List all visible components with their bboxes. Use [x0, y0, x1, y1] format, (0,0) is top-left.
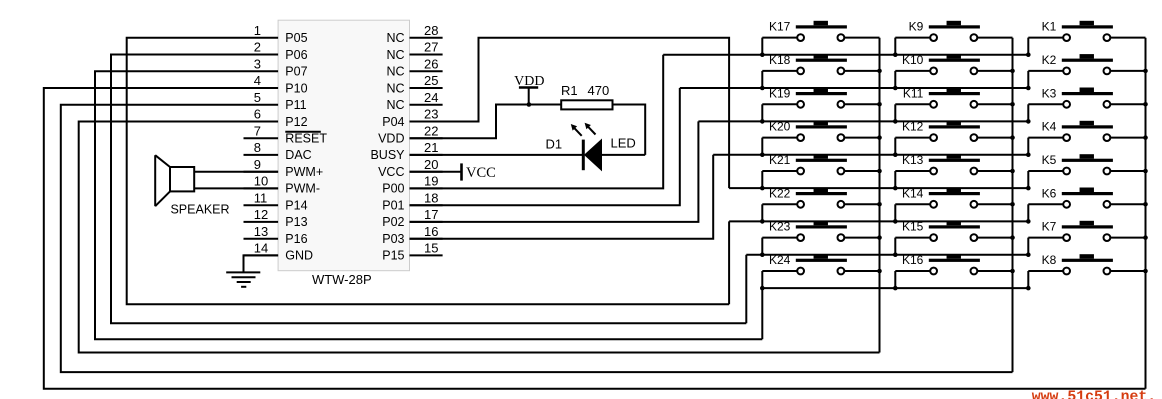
- junction bus 7 / column 3 key drop: [1026, 252, 1031, 257]
- junction key column 2 row 5 lead: [1010, 169, 1015, 174]
- svg-text:K4: K4: [1042, 120, 1057, 134]
- svg-text:NC: NC: [386, 81, 404, 95]
- pin 5 P11: [244, 90, 307, 112]
- junction bus 6 / column 2 key drop: [893, 219, 898, 224]
- svg-text:K20: K20: [769, 120, 791, 134]
- svg-text:P15: P15: [382, 249, 404, 263]
- pin 25 NC: [386, 73, 442, 95]
- pin 10 PWM-: [244, 174, 321, 196]
- svg-text:DAC: DAC: [285, 148, 311, 162]
- svg-text:VCC: VCC: [466, 165, 496, 181]
- svg-text:K18: K18: [769, 53, 791, 67]
- svg-text:K8: K8: [1042, 253, 1057, 267]
- svg-text:3: 3: [254, 56, 261, 71]
- junction bus 2 / column 2 key drop: [893, 86, 898, 91]
- wire P00 pin 19 riser to row bus 1: [410, 55, 664, 189]
- ground: [226, 272, 260, 286]
- junction VDD rail: [527, 102, 532, 107]
- junction key column 2 row 8 lead: [1010, 269, 1015, 274]
- svg-text:4: 4: [254, 73, 261, 88]
- svg-text:K22: K22: [769, 186, 791, 200]
- switch K15 pushbutton: [895, 220, 1012, 255]
- pin 27 NC: [386, 40, 442, 62]
- wire speaker to PWM+ pin 9: [194, 171, 278, 173]
- junction bus 5 / column 2 key drop: [893, 186, 898, 191]
- wire P05 riser to row bus 6: [728, 221, 730, 304]
- svg-text:WTW-28P: WTW-28P: [312, 272, 372, 287]
- switch K9 pushbutton: [895, 20, 1012, 55]
- svg-text:K2: K2: [1042, 53, 1057, 67]
- wire row bus 2: [680, 87, 1029, 89]
- svg-text:K10: K10: [902, 53, 924, 67]
- wire VDD pin 22 up to R1 rail: [410, 105, 562, 139]
- svg-text:K3: K3: [1042, 86, 1057, 100]
- svg-text:1: 1: [254, 23, 261, 38]
- pin 28 NC: [386, 23, 442, 45]
- svg-text:16: 16: [424, 224, 438, 239]
- svg-text:K12: K12: [902, 120, 924, 134]
- junction key column 2 row 7 lead: [1010, 235, 1015, 240]
- junction bus 2 / column 1 key drop: [760, 86, 765, 91]
- resistor R1 470: [561, 83, 613, 109]
- pin 14 GND: [244, 241, 314, 263]
- junction bus 8 / column 1 key drop: [760, 286, 765, 291]
- svg-text:470: 470: [588, 83, 610, 98]
- junction key column 3 row 7 lead: [1143, 235, 1148, 240]
- svg-text:NC: NC: [386, 65, 404, 79]
- svg-text:P11: P11: [285, 98, 306, 112]
- svg-text:26: 26: [424, 56, 438, 71]
- svg-text:P06: P06: [285, 48, 307, 62]
- junction bus 1 / column 2 key drop: [893, 52, 898, 57]
- pin 9 PWM+: [244, 157, 324, 179]
- svg-text:20: 20: [424, 157, 438, 172]
- svg-text:K19: K19: [769, 86, 791, 100]
- wire row bus 5: [729, 187, 1028, 189]
- switch K17 pushbutton: [762, 20, 879, 55]
- pin 11 P14: [244, 190, 308, 212]
- junction bus 8 / column 2 key drop: [893, 286, 898, 291]
- svg-text:P04: P04: [382, 115, 404, 129]
- svg-text:10: 10: [254, 174, 268, 189]
- switch K10 pushbutton: [895, 53, 1012, 88]
- pin 13 P16: [244, 224, 308, 246]
- wire P06 riser to row bus 7: [745, 255, 747, 324]
- svg-text:P16: P16: [285, 232, 307, 246]
- svg-text:17: 17: [424, 207, 438, 222]
- svg-text:K9: K9: [909, 20, 924, 34]
- svg-text:VCC: VCC: [378, 165, 404, 179]
- switch K14 pushbutton: [895, 186, 1012, 221]
- node VDD: [514, 74, 544, 105]
- wire row bus 8: [762, 287, 1028, 289]
- svg-text:P13: P13: [285, 215, 307, 229]
- switch K23 pushbutton: [762, 220, 879, 255]
- wire P06 pin 2 loop: [111, 55, 746, 324]
- junction key column 3 row 4 lead: [1143, 135, 1148, 140]
- svg-text:28: 28: [424, 23, 438, 38]
- svg-text:21: 21: [424, 140, 438, 155]
- svg-text:19: 19: [424, 174, 438, 189]
- switch K8 pushbutton: [1028, 253, 1145, 288]
- svg-text:BUSY: BUSY: [370, 148, 405, 162]
- switch K6 pushbutton: [1028, 186, 1145, 221]
- switch K16 pushbutton: [895, 253, 1012, 288]
- svg-text:P03: P03: [382, 232, 404, 246]
- junction key column 1 row 4 lead: [877, 135, 882, 140]
- svg-text:K11: K11: [903, 86, 924, 100]
- pin 17 P02: [382, 207, 442, 229]
- pin 8 DAC: [244, 140, 312, 162]
- svg-text:2: 2: [254, 40, 261, 55]
- switch K18 pushbutton: [762, 53, 879, 88]
- svg-text:K23: K23: [769, 220, 791, 234]
- svg-text:K7: K7: [1042, 220, 1057, 234]
- wire key column bus 2: [1012, 38, 1014, 372]
- wire P03 pin 16 riser to row bus 4: [410, 155, 714, 239]
- svg-text:5: 5: [254, 90, 261, 105]
- svg-text:6: 6: [254, 107, 261, 122]
- svg-text:RESET: RESET: [285, 132, 327, 146]
- junction key column 3 row 6 lead: [1143, 202, 1148, 207]
- svg-text:K14: K14: [902, 186, 924, 200]
- svg-text:8: 8: [254, 140, 261, 155]
- junction key column 1 row 6 lead: [877, 202, 882, 207]
- switch K24 pushbutton: [762, 253, 879, 288]
- pin 19 P00: [382, 174, 442, 196]
- svg-text:PWM+: PWM+: [285, 165, 323, 179]
- switch K13 pushbutton: [895, 153, 1012, 188]
- junction bus 4 / column 3 key drop: [1026, 152, 1031, 157]
- junction key column 3 row 5 lead: [1143, 169, 1148, 174]
- junction key column 1 row 2 lead: [877, 69, 882, 74]
- svg-text:PWM-: PWM-: [285, 182, 320, 196]
- svg-text:13: 13: [254, 224, 268, 239]
- junction bus 1 / column 1 key drop: [760, 52, 765, 57]
- svg-text:VDD: VDD: [514, 74, 544, 89]
- wire row bus 6: [729, 220, 1028, 222]
- pin 18 P01: [382, 190, 442, 212]
- speaker LS1 SPEAKER: [155, 155, 229, 216]
- junction bus 6 / column 3 key drop: [1026, 219, 1031, 224]
- junction bus 5 / column 1 key drop: [760, 186, 765, 191]
- svg-text:11: 11: [254, 190, 267, 205]
- svg-text:P12: P12: [285, 115, 307, 129]
- svg-text:12: 12: [254, 207, 268, 222]
- svg-text:www.51c51.net.: www.51c51.net.: [1032, 390, 1156, 399]
- pin 22 VDD: [378, 123, 443, 145]
- svg-text:K15: K15: [902, 220, 924, 234]
- junction bus 8 / column 3 key drop: [1026, 286, 1031, 291]
- svg-text:K17: K17: [769, 20, 791, 34]
- pin 21 BUSY: [370, 140, 442, 162]
- svg-text:VDD: VDD: [378, 132, 404, 146]
- svg-text:14: 14: [254, 241, 268, 256]
- junction bus 3 / column 2 key drop: [893, 119, 898, 124]
- junction key column 2 row 2 lead: [1010, 69, 1015, 74]
- svg-text:15: 15: [424, 241, 438, 256]
- junction key column 2 row 4 lead: [1010, 135, 1015, 140]
- wire VCC pin 20 stub: [410, 171, 462, 173]
- pin 24 NC: [386, 90, 442, 112]
- wire R1 to LED anode: [613, 105, 646, 155]
- IC U1 WTW-28P body: [278, 20, 409, 287]
- svg-text:P10: P10: [285, 81, 307, 95]
- pin 26 NC: [386, 56, 442, 78]
- svg-text:K16: K16: [902, 253, 924, 267]
- svg-text:24: 24: [424, 90, 438, 105]
- svg-text:K6: K6: [1042, 186, 1057, 200]
- wire row bus 3: [698, 120, 1028, 122]
- wire P04 pin 23 to row bus 5 over the top: [410, 38, 730, 188]
- svg-text:P00: P00: [382, 182, 404, 196]
- junction bus 5 / column 3 key drop: [1026, 186, 1031, 191]
- svg-text:P07: P07: [285, 65, 307, 79]
- svg-text:27: 27: [424, 40, 438, 55]
- junction key column 3 row 3 lead: [1143, 102, 1148, 107]
- switch K22 pushbutton: [762, 186, 879, 221]
- svg-text:K13: K13: [902, 153, 924, 167]
- junction bus 6 / column 1 key drop: [760, 219, 765, 224]
- junction bus 1 / column 3 key drop: [1026, 52, 1031, 57]
- wire key column bus 1: [879, 38, 881, 353]
- wire P10 pin 4 loop: [44, 88, 1146, 389]
- svg-text:P02: P02: [382, 215, 404, 229]
- pin 12 P13: [244, 207, 308, 229]
- wire LED anode to R1 drop: [602, 154, 646, 156]
- svg-text:23: 23: [424, 107, 438, 122]
- junction key column 2 row 3 lead: [1010, 102, 1015, 107]
- svg-text:NC: NC: [386, 48, 404, 62]
- svg-text:NC: NC: [386, 98, 404, 112]
- switch K19 pushbutton: [762, 86, 879, 121]
- wire BUSY pin 21 to LED cathode: [410, 154, 584, 156]
- svg-text:SPEAKER: SPEAKER: [170, 203, 229, 217]
- svg-text:9: 9: [254, 157, 261, 172]
- wire P07 pin 3 loop: [95, 71, 762, 339]
- switch K1 pushbutton: [1028, 20, 1145, 55]
- switch K7 pushbutton: [1028, 220, 1145, 255]
- junction key column 1 row 3 lead: [877, 102, 882, 107]
- junction key column 3 row 2 lead: [1143, 69, 1148, 74]
- svg-text:K1: K1: [1042, 20, 1057, 34]
- wire GND pin 14 to ground: [244, 255, 279, 272]
- wire row bus 7: [746, 254, 1028, 256]
- junction bus 2 / column 3 key drop: [1026, 86, 1031, 91]
- svg-text:K21: K21: [769, 153, 791, 167]
- svg-text:P14: P14: [285, 199, 307, 213]
- switch K12 pushbutton: [895, 120, 1012, 155]
- wire row bus 4: [713, 154, 1028, 156]
- LED D1: [546, 123, 636, 171]
- switch K3 pushbutton: [1028, 86, 1145, 121]
- svg-text:K5: K5: [1042, 153, 1057, 167]
- junction bus 7 / column 2 key drop: [893, 252, 898, 257]
- pin 23 P04: [382, 107, 442, 129]
- pin 7 RESET: [244, 123, 328, 145]
- svg-text:NC: NC: [386, 31, 404, 45]
- svg-text:P05: P05: [285, 31, 307, 45]
- wire P07 riser to row bus 8: [761, 288, 763, 339]
- switch K2 pushbutton: [1028, 53, 1145, 88]
- svg-text:K24: K24: [769, 253, 791, 267]
- switch K5 pushbutton: [1028, 153, 1145, 188]
- pin 3 P07: [244, 56, 308, 78]
- svg-text:18: 18: [424, 190, 438, 205]
- junction key column 1 row 5 lead: [877, 169, 882, 174]
- pin 1 P05: [244, 23, 308, 45]
- wire P02 pin 17 riser to row bus 3: [410, 121, 699, 221]
- pin 6 P12: [244, 107, 308, 129]
- wire P05 pin 1 loop: [127, 38, 729, 305]
- wire P01 pin 18 riser to row bus 2: [410, 88, 680, 205]
- junction bus 7 / column 1 key drop: [760, 252, 765, 257]
- wire row bus 1: [663, 54, 1028, 56]
- wire P11 pin 5 loop: [61, 105, 1013, 372]
- switch K11 pushbutton: [895, 86, 1012, 121]
- pin 15 P15: [382, 241, 442, 263]
- switch K4 pushbutton: [1028, 120, 1145, 155]
- svg-text:7: 7: [254, 123, 261, 138]
- wire key column bus 3: [1145, 38, 1147, 389]
- junction key column 3 row 8 lead: [1143, 269, 1148, 274]
- junction key column 1 row 7 lead: [877, 235, 882, 240]
- wire speaker to PWM- pin 10: [194, 187, 278, 189]
- svg-text:R1: R1: [561, 83, 578, 98]
- pin 4 P10: [244, 73, 308, 95]
- junction key column 1 row 8 lead: [877, 269, 882, 274]
- svg-text:LED: LED: [611, 136, 636, 151]
- wire P12 pin 6 loop: [79, 122, 880, 353]
- junction bus 3 / column 3 key drop: [1026, 119, 1031, 124]
- junction key column 2 row 6 lead: [1010, 202, 1015, 207]
- svg-text:25: 25: [424, 73, 438, 88]
- svg-text:D1: D1: [546, 137, 563, 152]
- switch K20 pushbutton: [762, 120, 879, 155]
- junction bus 3 / column 1 key drop: [760, 119, 765, 124]
- switch K21 pushbutton: [762, 153, 879, 188]
- svg-text:22: 22: [424, 123, 438, 138]
- svg-text:GND: GND: [285, 249, 313, 263]
- junction bus 4 / column 1 key drop: [760, 152, 765, 157]
- junction bus 4 / column 2 key drop: [893, 152, 898, 157]
- pin 2 P06: [244, 40, 308, 62]
- svg-text:P01: P01: [382, 199, 404, 213]
- pin 20 VCC: [378, 157, 443, 179]
- node VCC: [462, 163, 496, 180]
- pin 16 P03: [382, 224, 442, 246]
